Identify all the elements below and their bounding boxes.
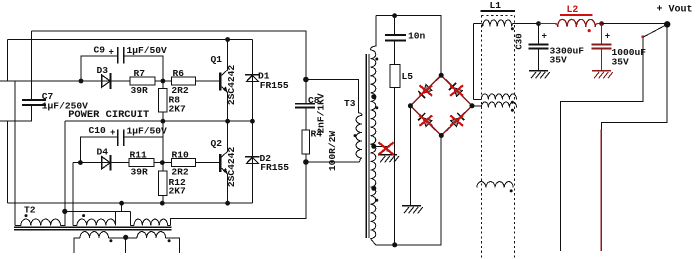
- junction T2 winding A / mid-rail drop: [62, 209, 67, 214]
- wire: R4 lower lead: [305, 154, 307, 162]
- label L2 underline (red): [560, 14, 593, 16]
- filter L1 dashed box: [482, 15, 515, 17]
- transistor Q2 collector: [220, 121, 227, 158]
- wire: T3 primary bottom elbow: [360, 158, 362, 162]
- T2 winding D polarity dot: [109, 239, 112, 242]
- wire: Q2 emitter bus: [7, 202, 252, 204]
- bridge left corner node: [408, 103, 413, 108]
- bridge X mark top-right: [450, 85, 463, 95]
- junction mid rail / R8: [161, 119, 166, 124]
- svg-text:L1: L1: [490, 0, 502, 11]
- wire: L1 left link vertical: [473, 23, 475, 99]
- transistor Q2 base bar: [219, 154, 221, 172]
- capacitor C8: [295, 103, 315, 105]
- diode D3: [102, 75, 110, 87]
- junction bus / T2 winding B: [119, 201, 124, 206]
- wire: T2 link line: [65, 210, 131, 212]
- L2 polarity dot (red): [588, 29, 591, 32]
- wire: T2 winding D left terminal: [74, 238, 80, 253]
- wire: node A' to T2 winding B: [72, 163, 74, 226]
- inductor L5: [390, 64, 400, 87]
- junction T2 D-E center tap: [123, 235, 128, 240]
- T3 secondary polarity dot c: [375, 199, 378, 202]
- wire: D1 vertical: [251, 40, 253, 122]
- svg-text:39R: 39R: [131, 166, 149, 177]
- wire: output lead 1 (diagonal + down-left): [561, 24, 668, 251]
- wire: T2 winding D-E link: [109, 237, 138, 239]
- L1 winding row1: [483, 20, 512, 27]
- inductor L2 (red): [558, 19, 596, 27]
- wire: C9 branch: [81, 56, 117, 81]
- bridge diode bottom-left: [423, 118, 432, 127]
- L1 row1 polarity dot: [511, 27, 514, 30]
- svg-text:1µF/50V: 1µF/50V: [127, 45, 168, 56]
- transformer T3 secondary winding: [370, 50, 375, 239]
- wire: node B vertical through R8 and R12: [162, 81, 164, 203]
- wire: primary bottom to R4 junction: [306, 161, 360, 163]
- wire: C7 lower lead to left edge: [0, 106, 32, 121]
- svg-text:D3: D3: [97, 65, 109, 76]
- svg-text:35V: 35V: [550, 55, 568, 66]
- wire: output lead 2 upper: [601, 24, 667, 130]
- wire: T2 winding A right terminal: [61, 211, 65, 225]
- wire: T2 winding B left stub: [73, 224, 77, 226]
- T2 winding B polarity dot: [82, 214, 85, 217]
- svg-text:2SC4242: 2SC4242: [226, 65, 237, 106]
- resistor R12: [158, 171, 167, 196]
- svg-text:FR155: FR155: [260, 80, 289, 91]
- wire: C8 to R4: [305, 108, 307, 130]
- wire: T2 winding C left terminal: [129, 211, 131, 225]
- wire: L5 lower lead down to return: [394, 88, 396, 245]
- wire: L1 row2 left stub: [474, 98, 482, 100]
- transistor Q1 emitter arrow: [223, 86, 228, 93]
- X mark over tap ground: [378, 142, 393, 154]
- bridge X mark bottom-left: [419, 115, 432, 125]
- junction mid rail / D1-D2: [250, 119, 255, 124]
- svg-text:C30: C30: [515, 33, 525, 49]
- bridge diode top-right: [454, 88, 463, 97]
- wire: C30 lower lead: [538, 49, 540, 70]
- wire: L1 row1 leads: [474, 23, 483, 26]
- transistor Q2 emitter: [220, 167, 227, 203]
- ground below bridge: [402, 205, 421, 207]
- svg-text:Q1: Q1: [211, 54, 223, 65]
- junction 10n tap: [392, 13, 397, 18]
- wire: T2 winding C stubs: [130, 224, 134, 226]
- svg-text:R10: R10: [172, 149, 190, 160]
- wire: T2 winding B right terminal: [115, 211, 117, 225]
- ground at T3 tap: [378, 154, 397, 156]
- transformer T2 winding A: [21, 219, 61, 225]
- wire: R4 junction down to T2 winding C: [171, 162, 306, 225]
- wire: T3 secondary top terminal: [370, 16, 376, 50]
- resistor R8: [158, 89, 167, 113]
- bridge bottom corner node: [439, 133, 444, 138]
- svg-text:R11: R11: [130, 149, 148, 160]
- svg-text:R6: R6: [173, 68, 185, 79]
- T3 secondary polarity dot b: [375, 106, 378, 109]
- T3 primary polarity dot: [354, 134, 357, 137]
- wire: outer top rail (Q1 collector rail): [7, 39, 252, 41]
- T3 secondary polarity dot a: [375, 58, 378, 61]
- wire: 10n upper lead: [394, 16, 396, 35]
- junction C8 / T3 node: [303, 77, 309, 83]
- svg-text:C10: C10: [89, 125, 107, 136]
- transformer T2 core: [14, 226, 172, 228]
- svg-text:2K7: 2K7: [169, 186, 187, 197]
- svg-text:+: +: [605, 32, 610, 42]
- transistor Q2 emitter arrow: [223, 168, 228, 175]
- transistor Q1 base bar: [219, 73, 221, 91]
- bridge rectifier edges: [410, 75, 472, 135]
- transistor Q1 emitter: [220, 86, 227, 122]
- svg-text:10n: 10n: [408, 30, 426, 41]
- svg-text:POWER CIRCUIT: POWER CIRCUIT: [68, 109, 149, 121]
- L1 row4 polarity dot: [510, 189, 513, 192]
- wire: C8 upper lead: [305, 80, 307, 104]
- wire: snubber top to T3 primary: [306, 80, 359, 113]
- T2 winding E polarity dot: [168, 239, 171, 242]
- wire: lower-left vertical to emitter bus: [6, 121, 8, 203]
- resistor R10: [171, 159, 195, 167]
- transformer T3 primary winding: [356, 116, 362, 159]
- node + Vout: [664, 21, 670, 27]
- transformer T2 winding E: [137, 232, 166, 238]
- svg-text:1µF/50V: 1µF/50V: [127, 126, 168, 137]
- transformer T2 winding C: [134, 219, 168, 225]
- svg-text:R4: R4: [311, 129, 323, 140]
- capacitor C7 lead upper: [31, 31, 33, 99]
- L1 row2 polarity dot: [511, 101, 514, 104]
- node B' junction: [160, 160, 165, 165]
- svg-text:R7: R7: [134, 68, 146, 79]
- wire: T3 top rail to bridge: [376, 16, 441, 76]
- junction bus / R12: [160, 201, 165, 206]
- svg-text:C9: C9: [94, 45, 106, 56]
- wire: bridge right to L1: [472, 106, 481, 108]
- wire: T2 winding E right terminal: [166, 238, 180, 253]
- wire: bridge left corner to ground: [409, 106, 411, 206]
- junction L2 / C31: [599, 21, 604, 26]
- junction Q1 collector on rail: [225, 37, 230, 42]
- junction bus / Q2 emitter: [225, 201, 230, 206]
- wire: bus drop to link line: [121, 203, 123, 211]
- wire: T2 center tap stub: [125, 238, 127, 253]
- L1 winding row4: [477, 182, 513, 188]
- label L1 underline: [480, 10, 515, 12]
- bridge diode bottom-right: [451, 118, 460, 127]
- wire: midpoint rail drop to T2: [64, 121, 66, 211]
- wire: C10 to node B': [125, 136, 164, 138]
- capacitor C31 1000uF (red): [592, 43, 612, 45]
- wire: C31 upper lead (red): [601, 24, 603, 44]
- wire: vertical from node A wire to T2 winding: [14, 81, 16, 225]
- resistor R4: [302, 130, 309, 154]
- svg-text:+: +: [110, 128, 115, 138]
- L1 winding row3: [481, 102, 516, 107]
- wire: outer frame left vertical: [6, 40, 8, 82]
- node A junction: [79, 79, 84, 84]
- wire: lower base-drive wire (node A' row): [73, 162, 220, 164]
- wire: inner top rail to C8/T3 junction: [32, 31, 306, 79]
- diode D2: [245, 156, 259, 158]
- wire: C9 to node B: [125, 56, 163, 81]
- svg-text:2R2: 2R2: [171, 166, 189, 177]
- wire: C31 lower lead (red): [601, 49, 603, 70]
- wire: output lead 2 lower (red): [600, 130, 602, 251]
- junction L1 / C30: [536, 21, 541, 26]
- bridge X mark bottom-right: [450, 115, 463, 125]
- svg-text:L5: L5: [402, 71, 414, 82]
- wire: secondary return to bridge bottom: [376, 136, 441, 245]
- svg-text:35V: 35V: [612, 56, 630, 67]
- red tick on lead 1: [642, 36, 645, 39]
- transformer T2 winding B: [77, 219, 115, 225]
- ground at C31 (red): [592, 70, 611, 72]
- wire: C30 upper lead: [538, 24, 540, 44]
- T3 secondary junction dot 3: [371, 186, 376, 191]
- resistor R11: [129, 159, 154, 167]
- node B junction: [161, 79, 166, 84]
- wire: T3 primary top elbow: [359, 113, 363, 116]
- svg-text:+ Vout: + Vout: [657, 5, 693, 16]
- wire: half-bridge midpoint rail: [65, 120, 253, 122]
- wire: D2 vertical: [251, 121, 253, 203]
- svg-text:2K7: 2K7: [169, 103, 187, 114]
- T3 secondary junction dot 1: [371, 94, 376, 99]
- svg-text:+: +: [109, 48, 114, 58]
- svg-text:2SC4242: 2SC4242: [226, 147, 237, 188]
- capacitor C9: [117, 47, 119, 64]
- resistor R6: [171, 77, 195, 85]
- T2 winding A polarity dot: [25, 214, 28, 217]
- transistor Q1 collector: [220, 40, 227, 77]
- bridge X mark top-left: [419, 85, 432, 95]
- diode D1: [245, 74, 259, 76]
- L1 winding row2: [481, 94, 516, 99]
- wire: L2 leads: [539, 24, 558, 27]
- bridge diode top-left: [423, 85, 432, 94]
- svg-text:T3: T3: [344, 98, 356, 109]
- svg-text:T2: T2: [24, 204, 36, 215]
- transformer T3 core: [365, 54, 367, 238]
- ground at C30: [529, 70, 548, 72]
- wire: C10 branch: [80, 137, 117, 163]
- L1 row3 polarity dot: [511, 109, 514, 112]
- wire: 10n to L5: [394, 41, 396, 64]
- svg-text:100R/2W: 100R/2W: [327, 131, 338, 172]
- svg-text:39R: 39R: [131, 85, 149, 96]
- svg-text:D4: D4: [97, 146, 109, 157]
- junction mid rail / Q1 emitter: [225, 119, 230, 124]
- T3 secondary junction dot 2: [371, 144, 376, 149]
- svg-text:+: +: [542, 32, 547, 42]
- capacitor 10n: [385, 34, 406, 36]
- svg-text:Q2: Q2: [211, 138, 223, 149]
- capacitor C30 3300uF: [529, 43, 549, 45]
- diode D4: [102, 157, 110, 169]
- bridge top corner node: [439, 73, 444, 78]
- transformer T2 winding D: [80, 232, 109, 238]
- svg-text:L2: L2: [567, 4, 579, 15]
- svg-text:2nF/1KV: 2nF/1KV: [316, 93, 327, 134]
- bridge right corner node: [470, 103, 475, 108]
- wire: T3 secondary bottom exit: [370, 239, 375, 245]
- svg-text:FR155: FR155: [260, 162, 289, 173]
- junction L5 / return wire: [392, 242, 397, 247]
- wire: T2 winding A left stub: [15, 224, 21, 226]
- wire: T3 tap to ground (cut): [374, 147, 387, 152]
- node A' junction: [78, 160, 83, 165]
- wire: main base-drive wire (node A row): [0, 80, 220, 82]
- wire: Vout rail: [602, 23, 668, 25]
- capacitor C7: [22, 99, 46, 101]
- junction R4 / primary bottom: [303, 159, 309, 165]
- capacitor C10: [117, 130, 119, 147]
- resistor R7: [130, 77, 155, 85]
